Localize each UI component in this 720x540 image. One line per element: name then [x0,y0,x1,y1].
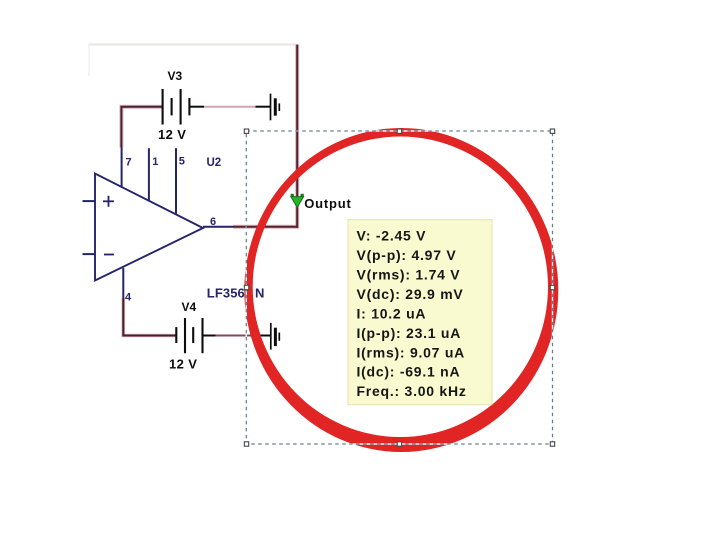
wire V3 left lead + corner down to pin7 [121,107,162,148]
svg-text:Freq.: 3.00 kHz: Freq.: 3.00 kHz [357,383,467,399]
svg-text:7: 7 [126,157,132,169]
selection rectangle dashes [246,131,552,444]
handle bottom-left [244,442,248,446]
measurement box [348,220,492,405]
svg-text:5: 5 [179,156,185,168]
handle mid-right [550,285,554,289]
op-amp U2 triangle [95,174,203,281]
svg-text:N: N [255,285,264,300]
svg-text:I(p-p): 23.1 uA: I(p-p): 23.1 uA [357,325,462,341]
faint sheet boundary left [88,44,90,76]
handle bottom-right [550,442,554,446]
input stub - [83,253,96,255]
ground top [271,94,280,121]
battery V3 [163,89,190,125]
handle top-right [550,129,554,133]
svg-text:V4: V4 [182,300,197,314]
op-amp + input marker [103,196,114,207]
svg-text:V: -2.45 V: V: -2.45 V [357,228,427,244]
output wire horizontal [233,226,297,228]
measurement text [357,228,467,400]
wire pin4 halo [123,298,176,336]
selection handles [244,129,554,446]
wire V3 halo [121,107,162,148]
svg-text:6: 6 [210,216,216,228]
op-amp - input marker [104,254,114,256]
selection rectangle white underlay [246,131,552,444]
wire V4 right to ground [203,335,216,337]
svg-text:4: 4 [125,292,132,304]
output wire halo [233,45,297,227]
svg-text:I: 10.2 uA: I: 10.2 uA [357,305,427,321]
wire V3 right to ground [189,106,204,108]
svg-text:I(dc): -69.1 nA: I(dc): -69.1 nA [357,364,461,380]
svg-text:I(rms): 9.07 uA: I(rms): 9.07 uA [357,344,466,360]
faint sheet boundary top [89,44,296,46]
probe arrow (green) [291,194,304,208]
svg-text:V(rms): 1.74 V: V(rms): 1.74 V [357,267,461,283]
pin 6 stub [203,226,233,228]
svg-text:V3: V3 [168,69,183,83]
pin 7 [121,148,123,187]
pin 5 [175,148,177,214]
svg-text:Output: Output [304,196,351,211]
wire pin4 to V4 [123,298,176,336]
pin 1 [148,148,150,200]
svg-text:LF356: LF356 [207,285,245,300]
svg-text:U2: U2 [207,157,222,169]
svg-text:12 V: 12 V [169,357,197,372]
handle mid-left [244,285,248,289]
handle top-middle [397,129,401,133]
input stub + [83,200,96,202]
pin 4 [122,268,124,298]
svg-text:12 V: 12 V [158,127,186,142]
ground bottom [271,323,280,350]
red annotation circle (asymmetric ring: outer minus offset inner) [244,128,558,452]
svg-text:1: 1 [152,156,158,168]
battery V4 [176,318,202,353]
svg-text:V(p-p): 4.97 V: V(p-p): 4.97 V [357,247,457,263]
output wire vertical [296,45,298,228]
svg-text:V(dc): 29.9 mV: V(dc): 29.9 mV [357,286,464,302]
handle bottom-middle [397,442,401,446]
handle top-left [244,129,248,133]
